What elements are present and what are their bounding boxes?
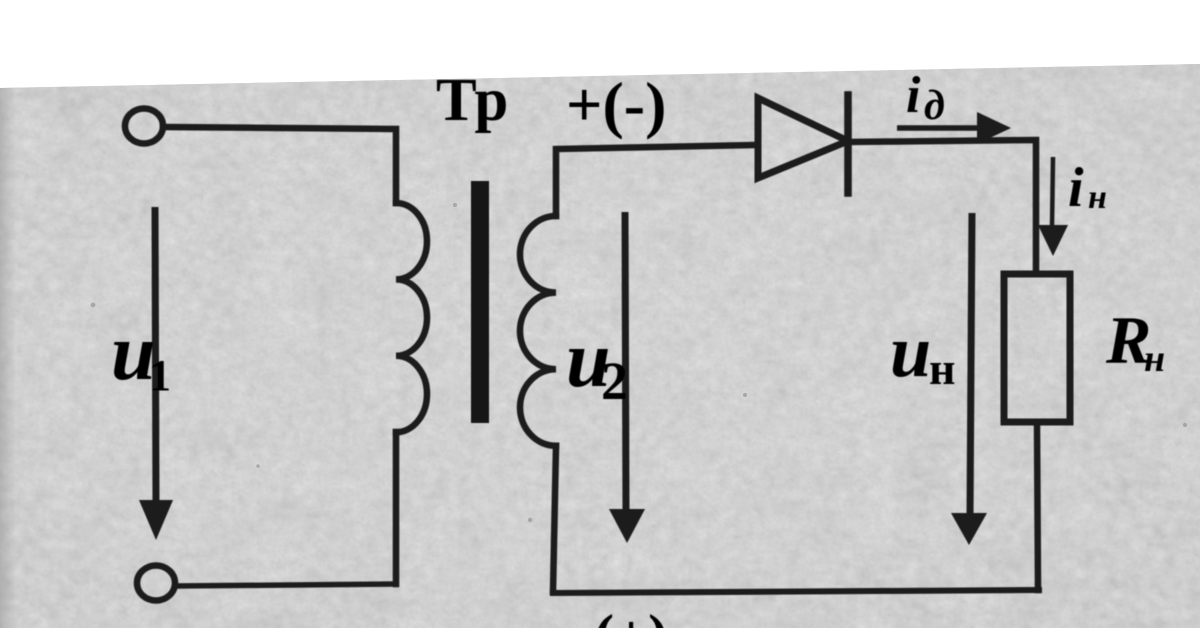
diode VD (anode triangle) <box>758 98 848 178</box>
wire: secondary top to diode anode <box>556 145 758 216</box>
arrow i_n (load current) <box>1038 157 1068 256</box>
wire: top-left terminal to transformer primary <box>163 127 396 203</box>
svg-text:Тр: Тр <box>436 67 508 134</box>
wire: resistor bottom to bottom rail <box>1037 422 1038 590</box>
wire: diode cathode to top-right corner, down to resistor <box>848 140 1036 274</box>
svg-text:н: н <box>929 343 956 394</box>
svg-text:н: н <box>1088 179 1107 216</box>
arrow u2 (secondary voltage) <box>609 212 645 543</box>
svg-text:i: i <box>1068 157 1084 219</box>
arrow u_n <box>951 213 987 545</box>
terminal (input, top-left) <box>125 109 163 144</box>
wire: primary bottom to lower-left terminal <box>393 432 400 584</box>
svg-text:u: u <box>890 311 931 393</box>
wire: secondary bottom to lower rail <box>553 446 556 592</box>
wire: bottom-left to terminal <box>177 584 396 586</box>
arrow i_d <box>897 112 1011 144</box>
svg-text:+(-): +(-) <box>566 69 666 140</box>
svg-text:i: i <box>906 67 921 124</box>
arrow u1 (primary voltage) <box>139 207 173 540</box>
terminal (input, bottom-left) <box>137 566 175 601</box>
svg-text:д: д <box>924 83 945 129</box>
svg-text:(+): (+) <box>594 603 668 628</box>
transformer core <box>471 181 489 423</box>
winding: transformer secondary <box>520 216 556 446</box>
diode VD cathode bar <box>844 95 852 193</box>
svg-text:н: н <box>1144 338 1165 380</box>
svg-text:1: 1 <box>149 351 171 400</box>
winding: transformer primary <box>396 203 427 432</box>
svg-text:2: 2 <box>601 351 628 411</box>
wire: bottom rail of secondary circuit <box>553 590 1039 593</box>
resistor Rn body <box>1004 274 1070 422</box>
